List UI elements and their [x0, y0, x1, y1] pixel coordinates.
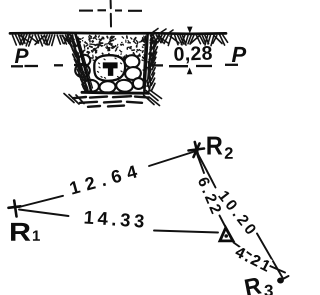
wire line R2 to R3 (lower stub) [257, 234, 283, 279]
distance label 12.64 [69, 165, 138, 195]
dimension arrow up (at datum) [187, 68, 193, 75]
stone bottom-far-right [133, 78, 144, 89]
R3 dot flare [281, 276, 289, 280]
big central stone [94, 55, 125, 81]
distance label 4.21 halo [234, 246, 271, 272]
pit left wall edge [76, 34, 92, 91]
R2 cross center blob [194, 148, 198, 152]
wire line R2 to station triangle (lower stub) [220, 216, 226, 228]
pit backfill stipple [77, 36, 146, 80]
distance label 10.20 [218, 190, 257, 236]
left datum label P [15, 49, 29, 63]
wire line R1 to station (right stub) [154, 231, 218, 233]
pit right wall edge [144, 34, 147, 91]
distance label 6.22 [198, 176, 222, 214]
centerline vertical stroke [110, 1, 112, 9]
wire line R1 to station (left stub) [19, 210, 69, 217]
left datum dashed line [11, 65, 84, 66]
station R1 cross [9, 201, 21, 217]
right datum dashed line [148, 65, 238, 66]
ground surface line [10, 33, 226, 34]
stone bottom-left [83, 79, 100, 92]
distance label 4.21 [234, 246, 271, 272]
stone right [124, 66, 141, 80]
stone top-left [76, 53, 91, 67]
stone right-top [124, 55, 140, 69]
monument mark (black T) [103, 62, 118, 76]
wire line R1 to R2 (left stub) [19, 196, 63, 207]
right datum label P [232, 47, 246, 62]
stone bottom-right [116, 79, 134, 92]
stone bottom-middle [99, 81, 116, 94]
wire line station triangle to R3 [234, 243, 286, 273]
centerline dashes [79, 9, 142, 12]
ground hatching right of pit [151, 29, 228, 46]
triangle center dot [224, 234, 228, 238]
label R1 [11, 223, 30, 241]
right wall hatching [144, 32, 162, 106]
station R2 cross [189, 142, 205, 158]
speckles on big stone [98, 58, 123, 78]
station triangle (polygon point) [220, 228, 233, 241]
hatching below pit bottom [73, 96, 149, 107]
wire line R2 to R3 (upper stub) [199, 155, 216, 188]
wire line R1 to R2 (right stub) [149, 152, 195, 167]
wire line R2 to station triangle (upper stub) [197, 153, 205, 174]
depth value 0,28 [174, 46, 212, 64]
ground hatching left of pit [13, 35, 72, 46]
pit bottom line [82, 91, 148, 95]
point R3 dot [277, 278, 284, 284]
centerline vertical lower segment [110, 14, 112, 27]
distance label 14.33 [84, 211, 144, 228]
label R3 [245, 277, 262, 295]
label R2 [207, 137, 222, 155]
dimension arrow down (at ground) [187, 27, 193, 34]
stone left [74, 63, 90, 78]
left wall hatching [64, 32, 88, 104]
